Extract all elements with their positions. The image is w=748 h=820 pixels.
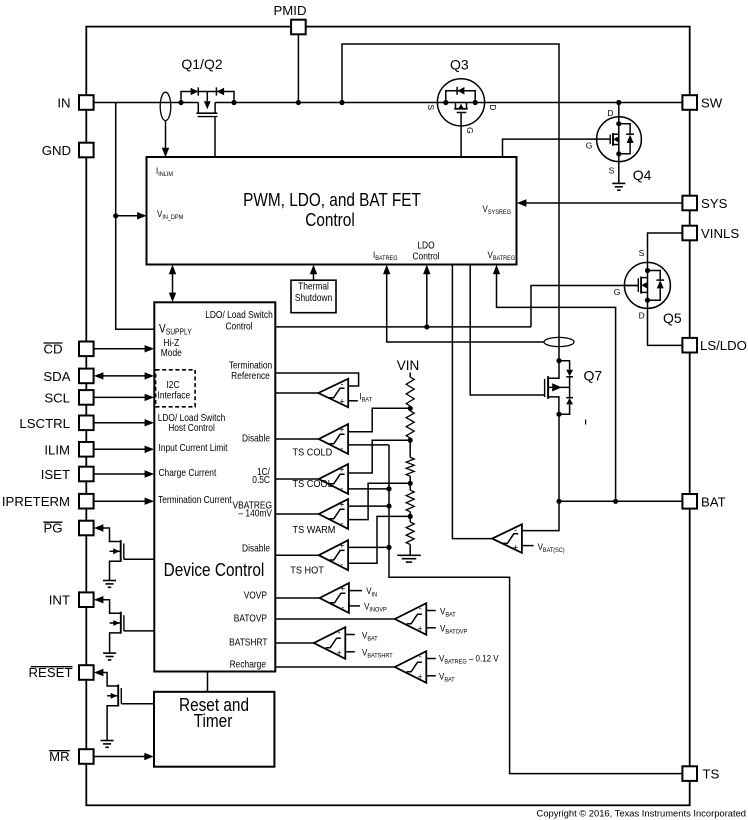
svg-text:BAT: BAT bbox=[701, 494, 726, 509]
wire TS HOT plus to TS net bbox=[348, 546, 389, 548]
svg-text:+: + bbox=[513, 542, 518, 552]
wire VBAT(SC) output to PWM bbox=[452, 265, 492, 539]
node BAT-Q7 bbox=[556, 499, 561, 504]
wire Q5 drain to LS/LDO bbox=[648, 300, 683, 345]
pin INT bbox=[49, 592, 94, 607]
comparator TS COLD bbox=[293, 424, 349, 459]
svg-text:Termination: Termination bbox=[229, 360, 272, 371]
wire IBATREG sense bbox=[383, 265, 544, 342]
pin ISET bbox=[41, 467, 94, 482]
svg-text:ILIM: ILIM bbox=[44, 442, 70, 457]
svg-text:Charge Current: Charge Current bbox=[159, 467, 217, 478]
wire BAT to VBAT(SC) minus bbox=[522, 501, 559, 530]
wire Device Control to Reset Timer bbox=[207, 672, 209, 692]
comparator Recharge bbox=[395, 651, 427, 683]
wire Q4 source to ground bbox=[618, 154, 620, 184]
svg-text:D: D bbox=[639, 311, 645, 321]
wire BAT rail bbox=[559, 500, 682, 502]
svg-text:TS: TS bbox=[703, 767, 720, 782]
svg-text:Mode: Mode bbox=[161, 347, 182, 358]
wire VOVP output bbox=[275, 597, 319, 599]
wire TS COOL minus to TS net bbox=[348, 488, 389, 490]
transistor Q7 bbox=[545, 358, 603, 417]
svg-text:Shutdown: Shutdown bbox=[295, 292, 332, 303]
svg-text:VIN: VIN bbox=[397, 358, 420, 373]
svg-text:-: - bbox=[419, 604, 422, 614]
label VIN bbox=[397, 358, 420, 373]
wire SCL to Device Control bbox=[94, 394, 154, 401]
ground ladder bbox=[397, 555, 421, 562]
pin BAT bbox=[682, 494, 725, 509]
node PMID-IN junction bbox=[296, 100, 301, 105]
node TS-COOL bbox=[386, 486, 391, 491]
wire PMID bypass to Q7/BAT bbox=[342, 44, 559, 361]
current sense ellipse IINLIM bbox=[160, 92, 171, 120]
wire TS WARM plus to TS net bbox=[348, 505, 389, 507]
svg-text:TS COLD: TS COLD bbox=[293, 447, 333, 459]
svg-text:– 140mV: – 140mV bbox=[238, 508, 272, 519]
svg-text:+: + bbox=[339, 499, 344, 509]
svg-text:S: S bbox=[639, 248, 645, 258]
comparator TS COOL bbox=[293, 464, 349, 494]
svg-text:LSCTRL: LSCTRL bbox=[19, 416, 70, 431]
svg-text:G: G bbox=[614, 287, 621, 297]
svg-text:I2C: I2C bbox=[166, 379, 179, 390]
block Thermal Shutdown bbox=[291, 280, 336, 313]
svg-text:Input Current Limit: Input Current Limit bbox=[159, 442, 228, 453]
wire ISET to Device Control bbox=[94, 470, 154, 477]
wire Recharge plus stub bbox=[426, 671, 455, 684]
svg-text:PWM, LDO, and BAT FET: PWM, LDO, and BAT FET bbox=[243, 190, 421, 211]
svg-text:SYS: SYS bbox=[701, 196, 728, 211]
label copyright bbox=[537, 808, 746, 819]
resistor R2 bbox=[406, 411, 414, 440]
resistor R5 bbox=[406, 522, 414, 555]
pin TS bbox=[682, 766, 719, 781]
svg-text:-: - bbox=[419, 652, 422, 662]
svg-text:-: - bbox=[340, 560, 343, 570]
svg-text:Q4: Q4 bbox=[633, 167, 652, 183]
wire VINLS to Q5 source bbox=[648, 233, 683, 263]
wire BATSHRT plus stub bbox=[345, 647, 393, 660]
svg-text:Control: Control bbox=[412, 251, 439, 262]
transistor Q1/Q2 bbox=[181, 56, 234, 117]
svg-text:+: + bbox=[339, 397, 344, 407]
pin CD bbox=[43, 341, 93, 356]
svg-text:PMID: PMID bbox=[274, 3, 307, 18]
svg-text:GND: GND bbox=[42, 143, 71, 158]
comparator IBAT bbox=[318, 379, 348, 408]
wire IN to VSUPPLY bbox=[116, 103, 155, 330]
comparator TS WARM bbox=[293, 499, 349, 536]
svg-text:LDO: LDO bbox=[417, 240, 434, 251]
wire Q1/Q2 gate to PWM bbox=[214, 117, 216, 157]
pin ILIM bbox=[44, 442, 93, 457]
pin PG bbox=[43, 521, 93, 536]
wire TS COOL plus to T2 bbox=[348, 440, 410, 473]
node Q3 drain bbox=[473, 100, 478, 105]
node VINDPM tap bbox=[113, 213, 118, 218]
current sense ellipse IBATREG bbox=[544, 337, 574, 346]
svg-text:Disable: Disable bbox=[242, 433, 270, 444]
svg-text:Device Control: Device Control bbox=[164, 560, 265, 581]
svg-text:BATSHRT: BATSHRT bbox=[229, 637, 268, 648]
node TS-WARM bbox=[386, 504, 391, 509]
resistor R3 bbox=[406, 457, 414, 483]
wire PWM to Q7 gate bbox=[470, 265, 544, 396]
svg-text:+: + bbox=[340, 583, 345, 593]
wire IBAT comparator output bbox=[275, 392, 318, 394]
pin SW bbox=[682, 95, 722, 110]
wire BATSHRT minus stub bbox=[345, 630, 378, 643]
wire T4-R5 bbox=[409, 516, 411, 522]
transistor Q5 bbox=[614, 248, 682, 326]
wire T2-R3 bbox=[409, 440, 411, 457]
pin RESET bbox=[29, 665, 94, 680]
wire Thermal Shutdown to PWM bbox=[310, 265, 317, 281]
wire ladder top bbox=[409, 373, 411, 378]
pin IN bbox=[57, 95, 93, 110]
svg-text:TS WARM: TS WARM bbox=[293, 524, 336, 536]
transistor Q3 bbox=[426, 57, 498, 134]
block Reset and Timer bbox=[154, 692, 274, 767]
svg-text:Recharge: Recharge bbox=[230, 659, 266, 670]
transistor RESET FET bbox=[94, 669, 154, 748]
block Device Control bbox=[154, 302, 275, 671]
resistor R1 bbox=[406, 377, 414, 408]
svg-text:SDA: SDA bbox=[43, 369, 70, 384]
wire IBAT plus stub bbox=[348, 391, 372, 404]
wire VBATREG sense bbox=[493, 265, 616, 502]
node TS-HOT bbox=[386, 545, 391, 550]
wire Termination Reference to minus bbox=[275, 373, 358, 386]
svg-text:-: - bbox=[341, 379, 344, 389]
svg-text:-: - bbox=[340, 483, 343, 493]
wire Q5 gate net bbox=[275, 286, 638, 327]
svg-text:Q5: Q5 bbox=[663, 310, 682, 326]
svg-text:S: S bbox=[426, 104, 436, 110]
svg-text:D: D bbox=[607, 108, 613, 118]
node tap T2 bbox=[408, 438, 413, 443]
pin IPRETERM bbox=[2, 494, 94, 509]
wire IN rail bbox=[94, 102, 683, 104]
wire IPRETERM to Device Control bbox=[94, 498, 154, 505]
svg-text:Timer: Timer bbox=[194, 711, 233, 732]
wire TS HOT output bbox=[275, 554, 319, 556]
node BAT-VBATREG bbox=[613, 499, 618, 504]
wire Q4 gate to PWM bbox=[503, 139, 597, 157]
comparator TS HOT bbox=[290, 540, 348, 577]
svg-text:Disable: Disable bbox=[242, 543, 270, 554]
node bypass junction bbox=[339, 100, 344, 105]
wire BATSHRT output bbox=[275, 642, 314, 644]
comparator BATOVP bbox=[395, 603, 427, 635]
svg-text:G: G bbox=[465, 127, 475, 134]
svg-text:Termination Current: Termination Current bbox=[158, 494, 232, 505]
wire VINDPM arrow bbox=[116, 212, 147, 219]
svg-text:-: - bbox=[514, 525, 517, 535]
svg-text:SCL: SCL bbox=[44, 390, 70, 405]
resistor R4 bbox=[406, 490, 414, 516]
wire Recharge minus stub bbox=[426, 653, 498, 666]
pin SCL bbox=[44, 390, 93, 405]
svg-text:+: + bbox=[417, 624, 422, 634]
pin LSCTRL bbox=[19, 416, 93, 431]
svg-text:Copyright © 2016, Texas Instru: Copyright © 2016, Texas Instruments Inco… bbox=[537, 808, 746, 819]
wire SDA bidirectional bbox=[94, 372, 154, 379]
svg-text:Control: Control bbox=[305, 210, 354, 231]
svg-text:Q3: Q3 bbox=[450, 57, 469, 73]
wire LDO Control arrow bbox=[423, 265, 430, 327]
svg-text:Q1/Q2: Q1/Q2 bbox=[181, 56, 222, 72]
svg-text:IPRETERM: IPRETERM bbox=[2, 494, 70, 509]
svg-text:TS HOT: TS HOT bbox=[290, 565, 324, 577]
svg-text:IN: IN bbox=[57, 95, 70, 110]
svg-text:-: - bbox=[341, 602, 344, 612]
transistor PG FET bbox=[94, 524, 154, 587]
transistor Q4 bbox=[586, 108, 652, 183]
svg-text:-: - bbox=[340, 443, 343, 453]
svg-text:+: + bbox=[339, 541, 344, 551]
wire TS WARM output bbox=[275, 513, 319, 515]
svg-text:Q7: Q7 bbox=[584, 368, 603, 384]
svg-text:BATOVP: BATOVP bbox=[234, 613, 267, 624]
pin SDA bbox=[43, 369, 93, 384]
svg-text:S: S bbox=[609, 166, 615, 176]
wire PWM-DeviceControl bus bbox=[169, 265, 176, 302]
wire VOVP minus stub bbox=[349, 601, 387, 614]
wire Q3 gate to PWM bbox=[460, 113, 462, 158]
svg-text:Host Control: Host Control bbox=[168, 422, 215, 433]
transistor INT FET bbox=[94, 596, 154, 660]
node LDO control junction bbox=[424, 324, 429, 329]
wire T3-R4 bbox=[409, 483, 411, 490]
node tap T4 bbox=[408, 514, 413, 519]
svg-text:LS/LDO: LS/LDO bbox=[700, 338, 747, 353]
svg-text:Reference: Reference bbox=[231, 370, 270, 381]
wire TS net bbox=[389, 445, 682, 774]
node tap T1 bbox=[408, 406, 413, 411]
chip boundary bbox=[86, 27, 689, 806]
wire LSCTRL to Device Control bbox=[94, 419, 154, 426]
node tap T3 bbox=[408, 481, 413, 486]
svg-text:Control: Control bbox=[225, 321, 252, 332]
pin GND bbox=[42, 143, 94, 158]
svg-text:0.5C: 0.5C bbox=[252, 475, 270, 486]
wire TS COOL output bbox=[275, 478, 319, 480]
wire ILIM to Device Control bbox=[94, 446, 154, 453]
svg-text:VINLS: VINLS bbox=[701, 226, 739, 241]
svg-text:Thermal: Thermal bbox=[298, 281, 329, 292]
svg-text:+: + bbox=[339, 464, 344, 474]
svg-text:-: - bbox=[338, 628, 341, 638]
comparator BATSHRT bbox=[314, 627, 346, 659]
node Q4 tap bbox=[616, 100, 621, 105]
wire Q7 to BAT rail bbox=[558, 414, 560, 501]
pin SYS bbox=[682, 196, 727, 211]
wire SW rail to Q4 drain bbox=[618, 103, 620, 118]
svg-text:VOVP: VOVP bbox=[244, 590, 267, 601]
svg-text:SW: SW bbox=[701, 96, 723, 111]
svg-text:D: D bbox=[488, 104, 498, 110]
wire MR to Reset Timer bbox=[94, 753, 154, 760]
wire BATOVP plus stub bbox=[426, 623, 467, 636]
comparator VOVP bbox=[320, 583, 349, 613]
wire TS COLD minus to TS net bbox=[348, 444, 389, 446]
wire CD to Device Control bbox=[94, 345, 154, 352]
wire TS HOT minus to T4 bbox=[348, 516, 410, 563]
svg-text:+: + bbox=[339, 424, 344, 434]
svg-text:+: + bbox=[417, 672, 422, 682]
wire TS COLD output bbox=[275, 438, 319, 440]
pin LS/LDO bbox=[682, 338, 747, 353]
svg-text:Interface: Interface bbox=[157, 390, 190, 401]
wire BATOVP output bbox=[275, 618, 395, 620]
node Q3 source bbox=[443, 100, 448, 105]
svg-text:G: G bbox=[586, 140, 593, 150]
wire sense to PWM IINLIM bbox=[162, 121, 169, 158]
node Q1/Q2 right bbox=[231, 100, 236, 105]
comparator VBAT(SC) bbox=[492, 524, 522, 553]
label I below Q7 bbox=[585, 420, 587, 425]
wire TS COLD plus to T1 bbox=[348, 408, 410, 432]
node Q1/Q2 left bbox=[178, 100, 183, 105]
wire VOVP plus stub bbox=[349, 586, 377, 599]
pin VINLS bbox=[682, 226, 739, 241]
wire PMID to IN rail bbox=[297, 34, 299, 103]
pin PMID bbox=[274, 3, 307, 34]
svg-text:-: - bbox=[340, 518, 343, 528]
block PWM LDO BAT FET Control bbox=[147, 157, 517, 265]
svg-text:ISET: ISET bbox=[41, 467, 70, 482]
wire BATOVP minus stub bbox=[426, 606, 456, 619]
wire VBAT(SC) plus stub bbox=[522, 541, 565, 554]
block I2C Interface bbox=[156, 370, 196, 407]
ground Q4 bbox=[612, 183, 625, 190]
pin MR bbox=[49, 749, 94, 764]
svg-text:TS COOL: TS COOL bbox=[293, 479, 334, 491]
wire TS WARM minus to T3 bbox=[348, 483, 410, 519]
wire Recharge output bbox=[275, 666, 395, 668]
svg-text:+: + bbox=[336, 648, 341, 658]
wire SYS to PWM VSYSREG bbox=[517, 199, 683, 206]
svg-text:LDO/ Load Switch: LDO/ Load Switch bbox=[205, 309, 273, 320]
svg-text:INT: INT bbox=[49, 593, 70, 608]
